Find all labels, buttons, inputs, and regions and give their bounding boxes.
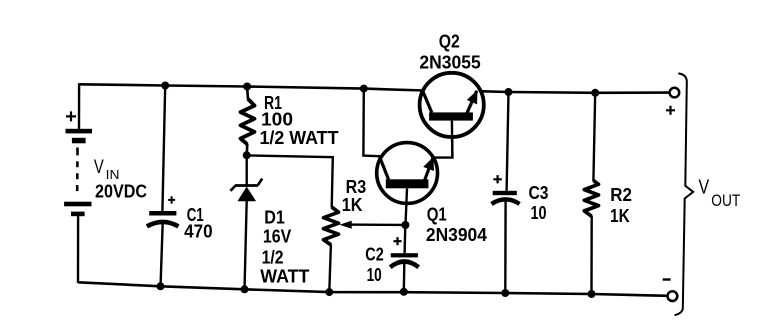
node C1 bottom junction <box>157 282 165 290</box>
node C3 top junction <box>505 88 513 96</box>
node C1 top junction <box>161 82 169 90</box>
wire C1 branch top <box>162 86 165 212</box>
output terminal plus <box>670 88 680 98</box>
node Q1 collector top junction <box>360 85 368 93</box>
wire R1 junction to R3 top <box>247 155 333 207</box>
transistor Q1 <box>377 143 438 225</box>
svg-text:C3: C3 <box>529 183 549 203</box>
label R2 1K <box>610 185 632 226</box>
C1 plus sign <box>168 196 175 203</box>
node D1 bottom junction <box>241 285 249 293</box>
zener diode D1 <box>230 155 262 290</box>
label D1 16V 1/2 WATT <box>260 207 309 286</box>
wire Q1 collector <box>363 89 383 157</box>
wire C1 branch bottom <box>161 223 163 287</box>
R3 wiper arrow wire <box>339 221 405 229</box>
wire C3 branch bottom <box>504 200 507 293</box>
label Q1 2N3904 <box>426 205 487 245</box>
output curly bracket <box>675 73 694 315</box>
svg-text:V: V <box>699 176 710 198</box>
output plus sign <box>666 106 675 115</box>
svg-text:Q2: Q2 <box>439 31 460 51</box>
node R2 top junction <box>591 89 599 97</box>
wire C2 branch top <box>403 225 406 253</box>
wire left branch top (rail to battery) <box>78 83 80 130</box>
battery B1 <box>64 129 92 216</box>
svg-text:20VDC: 20VDC <box>95 182 147 202</box>
wire left branch bottom (battery to bottom rail) <box>77 216 79 283</box>
capacitor C3 <box>492 191 520 204</box>
label C2 10 <box>365 245 383 286</box>
svg-text:470: 470 <box>184 222 213 242</box>
svg-text:R2: R2 <box>610 185 632 205</box>
svg-text:1/2 WATT: 1/2 WATT <box>260 128 339 148</box>
wire top rail left (V_IN+ to Q2 collector) <box>79 84 424 90</box>
capacitor C1 <box>147 211 179 226</box>
svg-text:1K: 1K <box>342 195 363 215</box>
wire Q1 emitter to Q2 base <box>433 121 452 158</box>
svg-text:100: 100 <box>261 110 293 130</box>
output terminal minus <box>668 291 678 301</box>
wire bottom rail <box>78 282 668 296</box>
wire top rail right (Q2 emitter to + terminal) <box>479 91 670 93</box>
C2 plus sign <box>393 237 401 245</box>
label C3 10 <box>529 183 549 223</box>
svg-text:WATT: WATT <box>260 267 309 287</box>
svg-text:10: 10 <box>531 203 547 223</box>
label V_IN <box>94 156 147 201</box>
output minus sign <box>663 278 671 280</box>
svg-text:OUT: OUT <box>711 191 740 210</box>
node C2 bottom junction <box>400 288 408 296</box>
wire C3 branch top <box>507 92 509 191</box>
resistor R1 <box>241 87 255 156</box>
resistor R2 <box>584 93 598 294</box>
potentiometer R3 <box>324 207 339 292</box>
svg-text:R3: R3 <box>346 177 367 197</box>
svg-text:2N3904: 2N3904 <box>426 225 487 245</box>
node R3 bottom junction <box>325 288 333 296</box>
node R1 top junction <box>243 83 251 91</box>
label R3 1K <box>342 177 366 215</box>
svg-text:1/2: 1/2 <box>262 247 284 267</box>
wire C2 branch bottom <box>403 263 406 293</box>
capacitor C2 <box>390 253 418 267</box>
svg-text:IN: IN <box>106 168 120 182</box>
svg-text:V: V <box>94 156 104 177</box>
svg-text:Q1: Q1 <box>427 205 447 225</box>
battery plus sign <box>66 111 76 121</box>
svg-text:10: 10 <box>367 265 382 285</box>
svg-text:D1: D1 <box>264 207 285 227</box>
node R1 bottom junction <box>243 151 251 159</box>
C3 plus sign <box>493 175 501 183</box>
svg-text:C2: C2 <box>365 245 383 265</box>
label Q2 2N3055 <box>419 31 480 72</box>
label R1 100 1/2 WATT <box>260 93 339 148</box>
node C3 bottom junction <box>501 289 509 297</box>
svg-text:16V: 16V <box>263 227 291 247</box>
svg-text:2N3055: 2N3055 <box>419 52 480 72</box>
svg-text:1K: 1K <box>610 206 630 226</box>
transistor Q2 <box>420 73 484 158</box>
node R2 bottom junction <box>588 290 596 298</box>
label V_OUT <box>699 176 741 210</box>
node wiper / C2 / Q1 base junction <box>401 221 409 229</box>
label C1 470 <box>184 205 213 242</box>
